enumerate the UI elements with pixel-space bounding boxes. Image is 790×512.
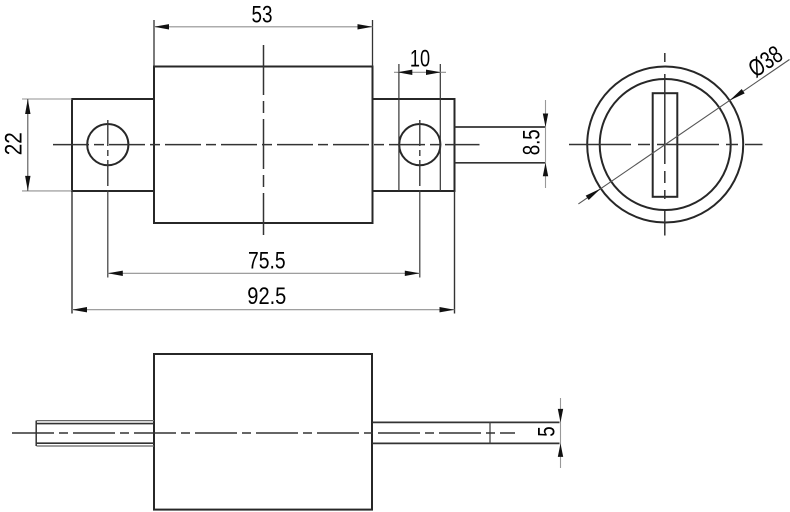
right lead top view [455, 127, 546, 163]
svg-text:53: 53 [252, 2, 273, 29]
bottom view left threaded stud [36, 421, 154, 446]
left hole centerline / extension line [107, 120, 109, 278]
dimension 92.5 [72, 191, 455, 314]
end view horizontal centerline [569, 144, 763, 146]
end view outer circle [587, 67, 743, 223]
dimension 75.5 [108, 247, 420, 276]
slot [653, 93, 678, 197]
svg-text:92.5: 92.5 [247, 283, 286, 310]
dimension 8.5 [519, 100, 549, 188]
dimension 53 [154, 2, 373, 67]
svg-text:75.5: 75.5 [248, 247, 286, 274]
diameter dimension line Ø38 [578, 41, 789, 204]
dimension 22 [1, 99, 73, 191]
lead joint tick [489, 422, 491, 443]
svg-text:10: 10 [410, 45, 430, 72]
horizontal centerline top view [53, 144, 480, 146]
top view body [154, 67, 373, 224]
vertical centerline top view body [263, 45, 265, 235]
dimension 10 [394, 45, 446, 191]
end view vertical centerline [664, 53, 666, 236]
bottom view right lead [373, 422, 560, 443]
right hole centerline / extension line [419, 120, 421, 278]
svg-text:5: 5 [534, 426, 561, 436]
left hole [87, 124, 128, 165]
bottom view body [154, 354, 372, 510]
right hole [399, 124, 440, 165]
dimension 5 [534, 398, 564, 468]
bottom view horizontal centerline [12, 432, 515, 434]
svg-text:22: 22 [1, 132, 28, 155]
right mounting tab [373, 99, 455, 191]
svg-text:8.5: 8.5 [519, 129, 546, 155]
left mounting tab [72, 99, 154, 191]
end view inner circle [600, 79, 731, 210]
